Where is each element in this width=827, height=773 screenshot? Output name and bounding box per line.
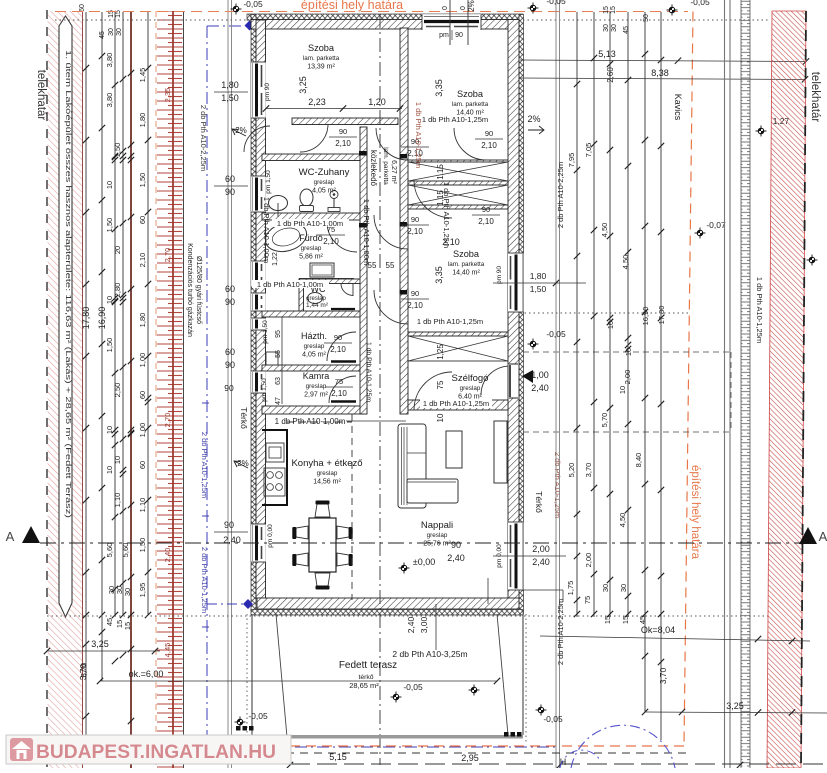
svg-text:4,05 m²: 4,05 m² xyxy=(312,188,336,195)
svg-text:2,50: 2,50 xyxy=(113,383,122,398)
svg-text:2,40: 2,40 xyxy=(406,616,416,633)
svg-text:45: 45 xyxy=(638,616,647,624)
svg-text:1,80: 1,80 xyxy=(530,271,547,281)
svg-text:Szoba: Szoba xyxy=(308,43,335,53)
svg-text:1 db Pth A10-1,00m: 1 db Pth A10-1,00m xyxy=(275,417,346,426)
svg-text:2 db Pth A10-1,25m: 2 db Pth A10-1,25m xyxy=(200,547,209,613)
svg-text:pm 90: pm 90 xyxy=(496,266,503,284)
svg-text:1 db Pth A10-1,00m: 1 db Pth A10-1,00m xyxy=(257,280,323,289)
svg-text:28,65 m²: 28,65 m² xyxy=(349,681,379,690)
svg-text:1,10: 1,10 xyxy=(138,498,147,513)
svg-text:Ok=8,04: Ok=8,04 xyxy=(641,625,675,635)
svg-text:60: 60 xyxy=(225,284,235,294)
svg-text:10: 10 xyxy=(105,181,114,189)
svg-text:2,35: 2,35 xyxy=(163,88,172,103)
svg-text:1,44 m²: 1,44 m² xyxy=(306,302,329,309)
svg-text:15: 15 xyxy=(610,6,617,14)
svg-text:2,40: 2,40 xyxy=(532,557,550,567)
svg-text:3,25: 3,25 xyxy=(298,76,308,94)
svg-text:-0,05: -0,05 xyxy=(243,0,263,9)
svg-text:16,90: 16,90 xyxy=(641,307,650,326)
svg-text:6,27 m²: 6,27 m² xyxy=(390,160,397,184)
svg-text:3,25: 3,25 xyxy=(726,701,744,711)
svg-text:2%: 2% xyxy=(467,0,476,12)
svg-text:10: 10 xyxy=(113,456,122,464)
svg-text:1,50: 1,50 xyxy=(530,284,547,294)
svg-text:1,20: 1,20 xyxy=(368,97,386,107)
svg-text:1,00: 1,00 xyxy=(531,370,549,380)
svg-text:1,22: 1,22 xyxy=(272,252,279,266)
svg-text:1,95: 1,95 xyxy=(138,583,147,598)
svg-text:5,20: 5,20 xyxy=(567,463,576,478)
svg-text:2,10: 2,10 xyxy=(481,141,497,150)
svg-text:A: A xyxy=(6,529,15,544)
svg-text:lam. parketta: lam. parketta xyxy=(303,55,340,62)
svg-text:60: 60 xyxy=(138,216,147,224)
svg-text:pm 1,50: pm 1,50 xyxy=(265,170,272,194)
svg-text:1,50: 1,50 xyxy=(138,173,147,188)
svg-text:1 db Pth A10-1,25m: 1 db Pth A10-1,25m xyxy=(422,115,488,124)
svg-text:60: 60 xyxy=(79,4,86,12)
svg-text:3,35: 3,35 xyxy=(434,266,444,284)
svg-text:14,56 m²: 14,56 m² xyxy=(313,479,341,486)
svg-text:10: 10 xyxy=(105,466,114,474)
svg-text:0: 0 xyxy=(442,6,449,10)
svg-text:7,05: 7,05 xyxy=(584,143,593,158)
svg-text:Térkő: Térkő xyxy=(534,491,544,513)
svg-text:Szélfogó: Szélfogó xyxy=(452,373,489,384)
svg-text:greslap: greslap xyxy=(304,343,325,350)
svg-text:lam. parketta: lam. parketta xyxy=(452,101,489,108)
svg-text:2 db Pth A10-3,25m: 2 db Pth A10-3,25m xyxy=(392,649,467,659)
svg-text:5,70: 5,70 xyxy=(600,413,609,428)
svg-text:90: 90 xyxy=(224,383,234,393)
svg-text:1 db Pth A10-1,25m: 1 db Pth A10-1,25m xyxy=(755,277,764,343)
svg-text:60: 60 xyxy=(225,174,235,184)
svg-text:5,60: 5,60 xyxy=(121,543,130,558)
svg-text:greslap: greslap xyxy=(427,532,448,539)
svg-text:8,38: 8,38 xyxy=(651,68,669,78)
svg-text:60: 60 xyxy=(138,391,147,399)
svg-text:5,86 m²: 5,86 m² xyxy=(299,254,323,261)
svg-text:±0,00: ±0,00 xyxy=(413,557,435,567)
svg-text:30: 30 xyxy=(108,28,115,36)
svg-text:15: 15 xyxy=(603,6,610,14)
svg-text:4,05 m²: 4,05 m² xyxy=(302,352,326,359)
svg-text:3,25: 3,25 xyxy=(91,639,109,649)
svg-text:10: 10 xyxy=(606,321,615,329)
svg-text:Ø125/80 gyári füstcső: Ø125/80 gyári füstcső xyxy=(195,256,202,324)
svg-text:Kondenzációs turbó gázkazán: Kondenzációs turbó gázkazán xyxy=(186,243,193,337)
svg-text:90: 90 xyxy=(334,333,342,342)
svg-text:közlekedő: közlekedő xyxy=(369,150,378,187)
svg-text:1,25: 1,25 xyxy=(436,344,445,360)
svg-text:-0,05: -0,05 xyxy=(248,711,268,721)
svg-text:90: 90 xyxy=(224,520,234,530)
svg-text:1 db Pth A10-1,25m: 1 db Pth A10-1,25m xyxy=(365,342,372,402)
svg-text:1,15: 1,15 xyxy=(436,190,445,206)
svg-text:telekhatár: telekhatár xyxy=(35,70,47,121)
svg-text:1,50: 1,50 xyxy=(105,218,114,233)
svg-text:2,10: 2,10 xyxy=(323,237,339,246)
svg-text:25,76 m²: 25,76 m² xyxy=(423,541,451,548)
svg-text:2,10: 2,10 xyxy=(407,301,423,310)
svg-text:2 db Pth A10-2,25m: 2 db Pth A10-2,25m xyxy=(556,162,565,228)
svg-text:1,80: 1,80 xyxy=(138,113,147,128)
svg-text:Térkő: Térkő xyxy=(239,407,249,429)
svg-text:47: 47 xyxy=(275,397,282,405)
svg-text:15: 15 xyxy=(621,616,630,624)
svg-text:greslap: greslap xyxy=(460,385,481,392)
svg-text:Kavics: Kavics xyxy=(673,94,683,121)
svg-text:90: 90 xyxy=(485,129,493,138)
svg-text:1,50: 1,50 xyxy=(105,338,114,353)
svg-text:1 db Pth A10-1,25m: 1 db Pth A10-1,25m xyxy=(414,102,423,168)
svg-text:75: 75 xyxy=(583,596,592,604)
svg-text:20: 20 xyxy=(113,246,122,254)
svg-text:építési hely határa: építési hely határa xyxy=(301,0,403,12)
svg-text:95: 95 xyxy=(275,330,282,338)
svg-text:1 db Pth A10-1,00m: 1 db Pth A10-1,00m xyxy=(362,199,371,265)
svg-text:15: 15 xyxy=(603,616,612,624)
svg-text:2,40: 2,40 xyxy=(531,383,549,393)
svg-text:16,90: 16,90 xyxy=(97,307,107,330)
svg-text:2,97 m²: 2,97 m² xyxy=(304,392,328,399)
svg-text:45: 45 xyxy=(105,618,114,626)
svg-text:2,10: 2,10 xyxy=(330,345,346,354)
svg-text:pm 1,50: pm 1,50 xyxy=(262,320,269,344)
svg-text:1 db Pth A10-1,25m: 1 db Pth A10-1,25m xyxy=(417,317,483,326)
svg-text:-0,05: -0,05 xyxy=(403,682,423,692)
svg-text:4,50: 4,50 xyxy=(618,513,627,528)
svg-text:90: 90 xyxy=(339,127,347,136)
svg-text:2,10: 2,10 xyxy=(478,217,494,226)
svg-text:30: 30 xyxy=(611,24,618,32)
svg-text:3,35: 3,35 xyxy=(434,79,444,97)
svg-text:5,60: 5,60 xyxy=(105,543,114,558)
svg-text:50: 50 xyxy=(643,14,650,22)
svg-text:3,80: 3,80 xyxy=(105,93,114,108)
svg-text:8,40: 8,40 xyxy=(634,453,643,468)
svg-text:60: 60 xyxy=(225,347,235,357)
svg-text:pm 90: pm 90 xyxy=(264,83,271,101)
svg-text:1,10: 1,10 xyxy=(113,493,122,508)
svg-text:-0,07: -0,07 xyxy=(706,220,726,230)
svg-text:greslap: greslap xyxy=(317,470,338,477)
svg-text:90: 90 xyxy=(225,187,235,197)
svg-text:2 db Pth A10-1,25m: 2 db Pth A10-1,25m xyxy=(553,452,562,518)
svg-text:2,10: 2,10 xyxy=(407,227,423,236)
svg-text:2,00: 2,00 xyxy=(584,553,593,568)
svg-text:-0,05: -0,05 xyxy=(546,0,566,6)
svg-text:30: 30 xyxy=(603,24,610,32)
svg-text:2,70: 2,70 xyxy=(163,413,172,428)
svg-text:5,15: 5,15 xyxy=(329,752,347,762)
svg-text:2 db Pth A10-2,25m: 2 db Pth A10-2,25m xyxy=(556,599,565,665)
svg-text:A: A xyxy=(819,529,827,544)
svg-text:WC-Zuhany: WC-Zuhany xyxy=(299,167,350,178)
svg-text:3,70: 3,70 xyxy=(584,463,593,478)
svg-text:2 db Pth A10-1,25m: 2 db Pth A10-1,25m xyxy=(200,432,209,498)
svg-text:30: 30 xyxy=(123,588,132,596)
svg-text:45: 45 xyxy=(623,26,630,34)
svg-text:pm: pm xyxy=(439,32,449,39)
svg-text:1,50: 1,50 xyxy=(138,538,147,553)
svg-text:2,70: 2,70 xyxy=(163,248,172,263)
svg-text:2,23: 2,23 xyxy=(308,97,326,107)
svg-text:14,40 m²: 14,40 m² xyxy=(452,270,480,277)
svg-text:90: 90 xyxy=(225,297,235,307)
svg-text:17,80: 17,80 xyxy=(81,307,91,330)
svg-text:Kamra: Kamra xyxy=(303,371,330,381)
svg-text:75: 75 xyxy=(335,377,343,386)
svg-text:1 db Pth A10-1,25m: 1 db Pth A10-1,25m xyxy=(423,399,489,408)
svg-text:1,50: 1,50 xyxy=(221,93,239,103)
svg-text:BUDAPEST.INGATLAN.HU: BUDAPEST.INGATLAN.HU xyxy=(36,741,276,763)
svg-text:építési hely határa: építési hely határa xyxy=(689,465,701,560)
svg-text:pm 0,00: pm 0,00 xyxy=(267,524,274,548)
svg-text:Szoba: Szoba xyxy=(453,249,480,259)
svg-text:10: 10 xyxy=(624,348,633,356)
svg-text:17,80: 17,80 xyxy=(657,306,666,325)
svg-text:pm 1,50: pm 1,50 xyxy=(261,378,268,402)
svg-text:55: 55 xyxy=(275,350,282,358)
svg-text:90: 90 xyxy=(411,289,419,298)
svg-text:1,15: 1,15 xyxy=(436,164,445,180)
svg-text:3,00: 3,00 xyxy=(419,616,429,633)
svg-text:greslap: greslap xyxy=(306,383,327,390)
svg-text:2,00: 2,00 xyxy=(623,370,632,385)
svg-text:greslap: greslap xyxy=(314,179,335,186)
svg-text:lam. parketta: lam. parketta xyxy=(382,147,389,185)
svg-text:2,10: 2,10 xyxy=(138,253,147,268)
svg-text:-0,05: -0,05 xyxy=(543,714,563,724)
svg-text:-0,05: -0,05 xyxy=(546,329,566,339)
svg-text:1 db Pth A10-1,00m: 1 db Pth A10-1,00m xyxy=(262,197,271,263)
svg-text:1,80: 1,80 xyxy=(138,313,147,328)
svg-text:55: 55 xyxy=(386,261,395,270)
svg-text:2,95: 2,95 xyxy=(461,753,479,763)
svg-text:13,39 m²: 13,39 m² xyxy=(307,64,335,71)
svg-text:1,80: 1,80 xyxy=(221,80,239,90)
svg-text:2,10: 2,10 xyxy=(335,139,351,148)
svg-text:30: 30 xyxy=(601,584,610,592)
svg-text:0: 0 xyxy=(460,6,467,10)
svg-text:7,95: 7,95 xyxy=(567,153,576,168)
svg-text:2,40: 2,40 xyxy=(223,535,241,545)
svg-text:10: 10 xyxy=(618,386,627,394)
svg-text:Konyha + étkező: Konyha + étkező xyxy=(291,458,362,469)
svg-text:telekhatár: telekhatár xyxy=(809,72,821,123)
svg-text:Fedett terasz: Fedett terasz xyxy=(339,660,397,671)
svg-text:2,00: 2,00 xyxy=(532,544,550,554)
svg-text:90: 90 xyxy=(225,360,235,370)
svg-text:2,10: 2,10 xyxy=(331,389,347,398)
svg-text:2,60: 2,60 xyxy=(606,67,615,83)
svg-text:greslap: greslap xyxy=(301,245,322,252)
svg-text:1. ütem Lakóépület összes hasz: 1. ütem Lakóépület összes hasznos alapte… xyxy=(64,50,73,518)
svg-text:60: 60 xyxy=(138,461,147,469)
svg-text:Fürdő: Fürdő xyxy=(299,233,323,243)
svg-text:3,70: 3,70 xyxy=(658,667,668,684)
svg-text:Házth.: Házth. xyxy=(301,331,327,341)
svg-text:10: 10 xyxy=(436,413,445,422)
svg-text:90: 90 xyxy=(451,540,461,550)
svg-text:5,13: 5,13 xyxy=(598,49,616,59)
svg-text:Nappali: Nappali xyxy=(421,520,453,531)
svg-text:90: 90 xyxy=(455,32,463,39)
svg-text:3,70: 3,70 xyxy=(78,663,88,680)
svg-text:1,00: 1,00 xyxy=(138,353,147,368)
svg-text:4,45: 4,45 xyxy=(163,643,172,658)
svg-text:3,80: 3,80 xyxy=(105,53,114,68)
svg-text:90: 90 xyxy=(482,205,490,214)
svg-text:30: 30 xyxy=(619,584,628,592)
svg-text:1,75: 1,75 xyxy=(566,581,575,596)
svg-text:2%: 2% xyxy=(527,114,540,124)
svg-text:45: 45 xyxy=(99,31,106,39)
svg-text:Szoba: Szoba xyxy=(457,89,484,99)
svg-text:-0,05: -0,05 xyxy=(690,0,710,7)
svg-text:30: 30 xyxy=(116,28,123,36)
svg-text:4,50: 4,50 xyxy=(621,255,630,270)
svg-text:90: 90 xyxy=(411,215,419,224)
svg-text:4,50: 4,50 xyxy=(600,223,609,238)
svg-text:15: 15 xyxy=(123,622,132,630)
svg-text:75: 75 xyxy=(436,380,445,389)
svg-text:térkő: térkő xyxy=(358,674,373,681)
svg-text:lam. parketta: lam. parketta xyxy=(448,261,485,268)
svg-text:1 db Pth A10-1,00m: 1 db Pth A10-1,00m xyxy=(277,219,343,228)
svg-text:2,40: 2,40 xyxy=(163,548,172,563)
svg-text:2,40: 2,40 xyxy=(447,553,465,563)
svg-text:ok.=6,00: ok.=6,00 xyxy=(129,669,164,679)
svg-text:63: 63 xyxy=(275,377,282,385)
